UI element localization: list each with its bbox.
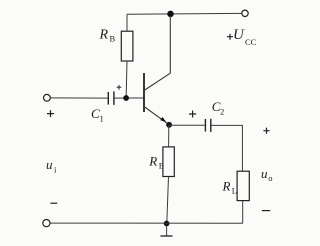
svg-text:CC: CC	[245, 37, 257, 47]
label C2	[212, 99, 224, 117]
node: top junction dot	[167, 11, 174, 18]
svg-text:B: B	[110, 34, 116, 44]
node: emitter junction dot	[166, 122, 172, 128]
svg-text:R: R	[99, 28, 109, 43]
svg-text:U: U	[233, 27, 245, 43]
label ui	[46, 157, 57, 175]
wire: RL bottom lead	[242, 201, 244, 224]
svg-text:o: o	[268, 173, 272, 183]
label C1	[91, 106, 104, 124]
wire: emitter node down to RE	[168, 125, 170, 147]
wire: Rb top lead	[126, 14, 128, 31]
label + (output top)	[263, 128, 269, 134]
terminal: +Ucc open circle	[242, 10, 248, 16]
resistor RL	[237, 171, 249, 200]
label +Ucc	[227, 27, 257, 47]
wire: top supply rail	[127, 12, 242, 15]
transistor Q (NPN)	[144, 16, 170, 124]
label RB	[99, 28, 116, 44]
svg-text:R: R	[222, 179, 231, 194]
svg-text:2: 2	[220, 107, 224, 117]
resistor RE	[163, 147, 174, 177]
wire: bottom rail	[50, 222, 243, 224]
label uo	[261, 166, 273, 183]
svg-text:E: E	[159, 161, 164, 171]
svg-text:L: L	[232, 186, 237, 196]
wire: RE bottom lead	[167, 177, 169, 224]
wire: C2 to RL top	[212, 125, 243, 171]
resistor RB	[121, 31, 133, 61]
terminal: input top open circle	[44, 94, 51, 101]
label + (C2 polarity)	[189, 111, 196, 118]
svg-text:u: u	[46, 157, 53, 172]
ground	[161, 227, 173, 237]
wire: input to C1	[50, 97, 107, 99]
wire: C1 to base	[115, 97, 144, 99]
wire: emitter to C2	[169, 124, 205, 126]
label RE	[148, 154, 164, 171]
wire: Rb bottom lead to base node	[125, 61, 128, 96]
capacitor C2	[205, 119, 210, 132]
svg-text:u: u	[261, 166, 268, 181]
node: bottom junction dot	[164, 221, 170, 227]
svg-text:R: R	[148, 154, 157, 169]
svg-text:1: 1	[100, 114, 104, 124]
label - (output bottom)	[262, 210, 270, 212]
label RL	[222, 179, 238, 196]
label + (C1 polarity)	[117, 85, 122, 90]
capacitor C1	[108, 91, 114, 105]
label + (input polarity)	[47, 110, 54, 117]
label - (input bottom)	[50, 202, 57, 204]
node: base junction dot	[123, 95, 129, 101]
terminal: input bottom open circle	[43, 220, 50, 227]
